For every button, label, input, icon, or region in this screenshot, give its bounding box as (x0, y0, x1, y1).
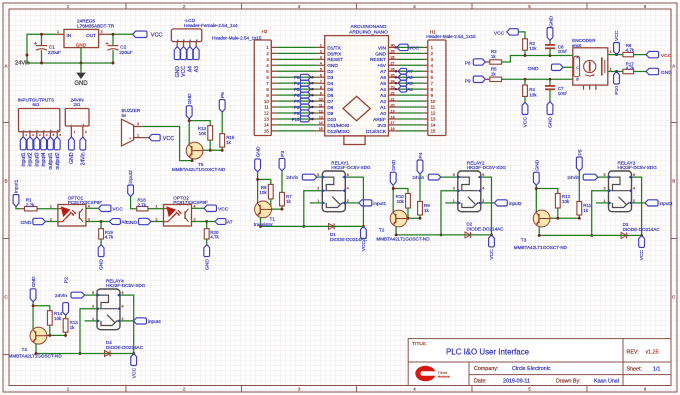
encoder bottom mounting pins (583, 85, 585, 90)
net flag VCC at opto2 pin4 (204, 205, 217, 211)
transistor T1 (255, 201, 272, 218)
buzzer pin 2 (134, 126, 143, 128)
svg-text:H2: H2 (262, 29, 268, 34)
svg-text:10nf: 10nf (558, 91, 567, 96)
svg-text:1: 1 (156, 205, 158, 209)
svg-text:4: 4 (194, 204, 196, 208)
net port P2 above resistor R13 (63, 303, 69, 316)
capacitor C2 (112, 34, 114, 45)
net port A3 under -LCD (193, 47, 199, 60)
svg-text:24Vin: 24Vin (15, 61, 30, 67)
resistor R11 (577, 202, 582, 216)
svg-text:1/1: 1/1 (653, 367, 660, 373)
net port A4 under -LCD (187, 47, 193, 60)
junction RELAY3 pin6 (640, 234, 643, 237)
opto2 pin3 wire (192, 221, 207, 223)
wire T3 emitter to rail (538, 226, 540, 235)
svg-text:HK23F-DC5V-SDG: HK23F-DC5V-SDG (106, 283, 146, 288)
svg-text:13: 13 (431, 117, 436, 122)
svg-text:10k: 10k (199, 131, 207, 136)
opto1 pin3 wire (86, 221, 101, 223)
svg-text:VCC: VCC (181, 66, 187, 77)
net port GND under C7 (547, 102, 553, 115)
optocoupler OPTO2 body (164, 205, 192, 227)
svg-text:10k: 10k (562, 199, 570, 204)
svg-text:11: 11 (319, 103, 323, 107)
svg-text:P5: P5 (577, 149, 583, 155)
svg-text:10: 10 (431, 99, 436, 104)
capacitor C1 (41, 34, 43, 45)
svg-text:24Vin: 24Vin (286, 175, 298, 180)
svg-text:ARDUINONANO: ARDUINONANO (350, 24, 386, 30)
junction RELAY2 pin3 rail (440, 233, 443, 236)
svg-text:10k: 10k (259, 190, 267, 195)
svg-text:1: 1 (50, 205, 52, 209)
svg-text:D5: D5 (327, 87, 333, 93)
svg-text:7: 7 (320, 79, 322, 83)
svg-text:electronic: electronic (438, 375, 450, 379)
svg-text:B: B (672, 179, 675, 184)
svg-text:P2: P2 (64, 277, 70, 283)
svg-text:P5: P5 (294, 87, 300, 92)
wire RELAY4 pin6 to VCC rail (120, 295, 134, 353)
svg-text:P6: P6 (220, 92, 226, 98)
svg-text:GND: GND (187, 93, 193, 104)
junction T1 emitter (259, 225, 262, 228)
svg-text:input3: input3 (660, 201, 673, 206)
transistor block T4: GND net port (30, 289, 36, 302)
transistor T3 (533, 210, 550, 227)
wire T5 emitter to rail (191, 158, 193, 160)
net flag GND right of R17 (646, 68, 659, 74)
svg-text:A: A (672, 64, 675, 69)
svg-text:D12/MISO: D12/MISO (327, 129, 350, 135)
wire RELAY1 pin1 stub (310, 202, 323, 204)
opto1 pin4 wire to VCC (86, 207, 99, 209)
svg-text:P7: P7 (294, 99, 300, 104)
svg-text:GND: GND (126, 220, 137, 226)
VCC net flag at regulator output (133, 31, 147, 37)
svg-text:AREF: AREF (373, 117, 386, 123)
svg-text:4: 4 (347, 187, 349, 191)
svg-text:D1/TX: D1/TX (327, 45, 341, 51)
svg-text:A4: A4 (380, 87, 386, 93)
svg-text:A5: A5 (407, 81, 413, 86)
junction opto1 output (100, 220, 103, 223)
svg-text:VCC: VCC (661, 53, 672, 59)
svg-text:10k: 10k (54, 316, 62, 321)
connector H1 pin stubs (424, 46, 428, 48)
relay RELAY3 (609, 171, 632, 212)
junction T1 base nodes (269, 208, 272, 211)
svg-text:P8: P8 (294, 105, 300, 110)
svg-text:D11/MOSI: D11/MOSI (327, 123, 349, 129)
svg-text:RESET: RESET (370, 57, 386, 63)
wire R5 to encoder pin B (502, 78, 573, 80)
net port input2 above OPTO2 (128, 185, 134, 197)
net port VCC under RELAY4 (131, 354, 137, 366)
svg-text:4: 4 (320, 62, 322, 66)
svg-text:4.7k: 4.7k (105, 235, 114, 240)
net port GND under R19 (100, 239, 102, 245)
svg-text:GND: GND (661, 70, 672, 76)
svg-text:Company:: Company: (474, 366, 498, 372)
svg-text:4: 4 (482, 187, 484, 191)
company logo Circle Electronic (415, 364, 436, 381)
svg-text:Circle Electronic: Circle Electronic (512, 366, 551, 372)
svg-text:D3: D3 (327, 75, 333, 81)
net flag input3 at RELAY3 pin2 (645, 200, 658, 206)
wire T4 base rail (49, 325, 51, 335)
net flag P5 on arduino D5 (300, 86, 311, 92)
net port VCC under RELAY1 (361, 226, 367, 238)
transistor block T5: GND net port (186, 106, 192, 119)
net port input1 under INPUTOUTPUTS (20, 137, 26, 150)
transistor T4 (30, 327, 47, 344)
wire T1 gnd to R8 (258, 179, 271, 184)
svg-text:D9: D9 (327, 111, 333, 117)
svg-text:GND: GND (20, 220, 31, 226)
resistor R13 (63, 319, 68, 333)
svg-text:MMBTA42LT1GOSCT-ND: MMBTA42LT1GOSCT-ND (514, 245, 568, 250)
svg-text:HK23F-DC5V-SDG: HK23F-DC5V-SDG (467, 165, 507, 170)
wire P3 to R7 (281, 171, 283, 193)
svg-text:Drawn By:: Drawn By: (556, 379, 581, 385)
svg-text:23: 23 (391, 85, 395, 89)
svg-text:10: 10 (319, 97, 323, 101)
svg-text:GND: GND (74, 81, 88, 87)
svg-text:input1: input1 (21, 152, 27, 166)
svg-text:20: 20 (391, 103, 395, 107)
net port GND under -LCD (174, 47, 180, 60)
wire 24Vin input rail (27, 34, 113, 63)
svg-text:Date:: Date: (474, 378, 487, 384)
svg-text:4.7k: 4.7k (626, 47, 635, 52)
svg-text:T2: T2 (379, 228, 385, 233)
svg-text:input2: input2 (509, 201, 522, 206)
wire T4 emitter to rail (35, 344, 37, 354)
wire emitter rail T3 (539, 234, 641, 236)
svg-text:24Vin: 24Vin (55, 293, 67, 298)
svg-text:A3: A3 (194, 66, 200, 72)
wire 24Vin to RELAY3 (598, 176, 609, 178)
svg-text:24: 24 (391, 79, 395, 83)
wires arduino to H1 (397, 46, 424, 48)
net flag VCC on VIN wire (395, 46, 398, 49)
svg-text:1k: 1k (286, 199, 291, 204)
junction RELAY3 pin3 rail (590, 234, 593, 237)
wire R2 to encoder A row (524, 50, 526, 55)
wire T1 emitter to rail (260, 217, 262, 226)
net flag input1 at RELAY1 pin2 (359, 200, 372, 206)
relay RELAY1 (322, 171, 345, 212)
svg-text:6x1: 6x1 (33, 102, 41, 107)
net port VCC under RELAY2 (489, 235, 495, 247)
wire encoder pin A (566, 55, 573, 57)
svg-text:P8: P8 (465, 60, 471, 65)
connector INPUTOUTPUTS pin stubs and numbers (22, 132, 24, 137)
net port input4 under INPUTOUTPUTS (41, 137, 47, 150)
diode D4 (105, 351, 111, 357)
svg-text:MMBTA42LT1GOSCT-ND: MMBTA42LT1GOSCT-ND (376, 237, 430, 242)
title block frame (408, 339, 671, 386)
svg-text:GND: GND (375, 51, 386, 57)
svg-text:TITLE:: TITLE: (412, 341, 427, 347)
svg-text:VCC: VCC (523, 117, 529, 128)
svg-text:3: 3 (88, 218, 90, 222)
svg-text:21: 21 (391, 97, 395, 101)
wire T3 gnd to R12 (536, 189, 558, 194)
svg-text:+: + (129, 137, 131, 141)
net port P5 above resistor R11 (576, 157, 582, 171)
svg-text:D10: D10 (327, 117, 336, 123)
net port input2 under INPUTOUTPUTS (27, 137, 33, 150)
wire RELAY3 pin2 (632, 202, 646, 204)
svg-text:10: 10 (264, 99, 269, 104)
junction encoder pin2 (615, 70, 618, 73)
svg-text:3V3: 3V3 (377, 123, 386, 129)
svg-text:P3: P3 (294, 75, 300, 80)
wire R8 to VCC flag (634, 54, 647, 56)
resistor R8 (268, 184, 273, 199)
net port 24Vin under 24VIN (80, 137, 86, 150)
junction T2 base nodes (407, 217, 410, 220)
wire T4 gnd to R14 (33, 306, 50, 311)
svg-text:12: 12 (264, 111, 269, 116)
wire P5 to R11 (578, 171, 580, 202)
svg-text:input2: input2 (28, 152, 34, 166)
node 24Vin (26, 54, 29, 57)
wire RELAY2 pin1 stub (445, 202, 458, 204)
svg-text:input4: input4 (41, 152, 47, 166)
resistor R7 (280, 192, 285, 206)
svg-text:10nf: 10nf (558, 49, 567, 54)
junction T3 base nodes (556, 217, 559, 220)
relay RELAY4 (97, 289, 120, 330)
svg-text:A3: A3 (380, 93, 386, 99)
svg-text:220uF: 220uF (119, 50, 132, 55)
net port GND under 24VIN (69, 137, 75, 150)
wire RELAY1 pin3 to rail (304, 191, 323, 227)
wire T4 collector/gnd (32, 302, 34, 329)
connector INPUTOUTPUTS body (19, 109, 60, 132)
junction T5 base nodes (209, 149, 212, 152)
svg-text:REV:: REV: (627, 349, 639, 355)
junction opto2 output (205, 220, 208, 223)
resistor R2 (523, 39, 528, 50)
svg-text:T4: T4 (22, 347, 28, 352)
svg-text:2019-09-11: 2019-09-11 (503, 378, 530, 384)
svg-text:18: 18 (391, 115, 395, 119)
diode D2 (465, 232, 471, 238)
svg-text:D0/RX: D0/RX (327, 51, 342, 57)
svg-text:GND: GND (327, 63, 338, 69)
svg-text:4.7k: 4.7k (626, 66, 635, 71)
net flag P10 on arduino D10 (300, 116, 311, 122)
resistor R10 (406, 194, 411, 209)
net flag P7 on arduino D7 (300, 98, 311, 104)
wire R3 to encoder pin A (502, 56, 566, 63)
svg-text:DIODE-DO214AC: DIODE-DO214AC (106, 345, 144, 350)
svg-text:VCC: VCC (163, 136, 174, 142)
svg-text:4: 4 (122, 305, 124, 309)
connector H1 body (428, 40, 446, 136)
net port output2 under INPUTOUTPUTS (54, 137, 60, 150)
svg-text:220uF: 220uF (48, 50, 61, 55)
wire T2 base rail (407, 208, 409, 218)
wire RELAY1 pin6 to VCC rail (345, 177, 363, 226)
svg-text:1k: 1k (491, 54, 496, 59)
transistor block T2: GND net port (390, 172, 396, 185)
svg-text:+5V: +5V (377, 63, 386, 69)
svg-text:VCC: VCC (112, 207, 123, 213)
svg-text:D6: D6 (327, 93, 333, 99)
svg-text:HK23F-DC5V-SDG: HK23F-DC5V-SDG (618, 165, 658, 170)
svg-text:Sheet:: Sheet: (627, 367, 642, 373)
svg-text:15: 15 (264, 129, 269, 134)
svg-text:11: 11 (264, 105, 269, 110)
IC U1 ARDUINO_NANO body (325, 36, 389, 136)
wire P2 to R13 (65, 315, 67, 318)
svg-text:1k: 1k (226, 140, 231, 145)
net flag A6 at opto1 pin3 (101, 221, 109, 223)
junction T1 gnd node (256, 178, 259, 181)
svg-text:A5: A5 (380, 81, 386, 87)
svg-text:24Vin: 24Vin (80, 152, 86, 165)
svg-text:26: 26 (391, 68, 395, 72)
svg-text:GND: GND (391, 159, 397, 170)
resistor R12 (555, 194, 560, 209)
net port VCC above encoder pin1 (614, 43, 620, 55)
wire emitter rail T2 (396, 234, 491, 236)
diode D3 (621, 232, 627, 238)
svg-text:input3: input3 (34, 152, 40, 166)
net flag VCC right of R8 (646, 51, 659, 57)
svg-text:A7: A7 (227, 220, 233, 225)
wire emitter rail T4 (36, 353, 134, 355)
svg-text:IN: IN (67, 33, 72, 38)
wire P6 to R15 (221, 112, 223, 134)
svg-text:GND: GND (548, 15, 554, 26)
svg-text:input1: input1 (14, 179, 20, 193)
svg-text:24Vin: 24Vin (567, 175, 579, 180)
resistor R13 (208, 126, 213, 141)
svg-text:5: 5 (453, 173, 455, 177)
svg-text:A0: A0 (380, 111, 386, 117)
svg-text:P3: P3 (280, 151, 286, 157)
resistor R18 (137, 207, 148, 211)
svg-text:14: 14 (431, 123, 436, 128)
net port input1 above OPTO1 (13, 195, 19, 207)
net flag VCC at opto1 pin4 (98, 205, 111, 211)
svg-text:16: 16 (391, 127, 395, 131)
resistor R4 (524, 79, 526, 85)
svg-text:VCC: VCC (614, 30, 620, 41)
svg-text:transistor: transistor (254, 222, 273, 227)
wire T5 base rail (209, 140, 211, 150)
junction RELAY1 pin3 rail (302, 225, 305, 228)
resistor R17 (623, 69, 634, 73)
junction T3 gnd node (535, 187, 538, 190)
wire T1 collector/gnd (257, 172, 259, 203)
wire regulator output (110, 33, 133, 35)
junction encoder pin1 (615, 53, 618, 56)
wire 24Vin to RELAY2 (441, 176, 458, 178)
wire RELAY4 pin3 to rail (80, 309, 97, 354)
voltage regulator U 24REG5 body (64, 29, 99, 47)
wire T2 emitter to rail (395, 226, 397, 235)
svg-text:19: 19 (391, 109, 395, 113)
wire T5 collector/gnd (188, 119, 190, 144)
svg-text:D2: D2 (327, 69, 333, 75)
svg-text:GND: GND (548, 117, 554, 128)
net flag P8 on arduino D8 (300, 104, 311, 110)
VCC net flag at buzzer (149, 134, 160, 140)
wire T3 collector/gnd (535, 185, 537, 212)
pin 1 regulator (55, 33, 64, 35)
svg-text:17: 17 (391, 121, 395, 125)
svg-text:D8: D8 (327, 105, 333, 111)
svg-text:P6: P6 (294, 93, 300, 98)
svg-text:1k: 1k (491, 71, 496, 76)
svg-text:2.7k: 2.7k (138, 202, 147, 207)
wires H2 to arduino (276, 46, 316, 48)
svg-text:GND: GND (31, 276, 37, 287)
transistor T5 (186, 142, 203, 159)
wire T1 base rail (270, 199, 272, 209)
svg-text:2.7k: 2.7k (26, 202, 35, 207)
svg-text:4: 4 (88, 204, 90, 208)
svg-text:B: B (5, 179, 8, 184)
svg-text:A6: A6 (380, 75, 386, 81)
svg-text:6: 6 (320, 74, 322, 78)
connector 24VIN body (65, 109, 89, 127)
encoder push button (601, 57, 603, 75)
wire RELAY4 pin1 stub (85, 320, 98, 322)
border row ticks and letters (3, 122, 9, 124)
svg-text:RESET: RESET (327, 57, 343, 63)
wire RELAY2 pin3 to rail (441, 191, 458, 235)
net flag P9 on arduino D9 (300, 110, 311, 116)
resistor R9 (418, 202, 423, 216)
net flag P3 on arduino D3 (300, 74, 311, 80)
svg-text:10k: 10k (529, 46, 537, 51)
svg-text:input1: input1 (373, 201, 386, 206)
net port VCC under RELAY3 (639, 235, 645, 247)
wire R18 to OPTO2 (148, 208, 164, 210)
junction T5 emitter (191, 159, 194, 162)
net flag input2 at RELAY2 pin2 (494, 200, 507, 206)
svg-text:DIODE-DO214AC: DIODE-DO214AC (330, 237, 368, 242)
connector H2 body (254, 40, 271, 136)
svg-text:input4: input4 (148, 319, 161, 324)
svg-text:VCC: VCC (131, 368, 137, 379)
svg-text:output2: output2 (55, 152, 61, 169)
svg-text:27: 27 (391, 62, 395, 66)
svg-text:MMBTA42LT1GOSCT-ND: MMBTA42LT1GOSCT-ND (9, 354, 63, 359)
svg-text:A2: A2 (380, 99, 386, 105)
svg-text:OUT: OUT (86, 33, 96, 38)
junction T5 gnd node (188, 119, 191, 122)
svg-text:GND: GND (99, 259, 105, 270)
svg-text:A7: A7 (380, 69, 386, 75)
svg-text:2: 2 (137, 122, 139, 126)
net flag GND at opto2 pin2 (139, 218, 152, 224)
optocoupler OPTO1 LED (61, 207, 69, 216)
wire input1 to R1 (16, 207, 20, 209)
svg-text:24Vin: 24Vin (412, 175, 424, 180)
svg-text:A: A (5, 64, 8, 69)
